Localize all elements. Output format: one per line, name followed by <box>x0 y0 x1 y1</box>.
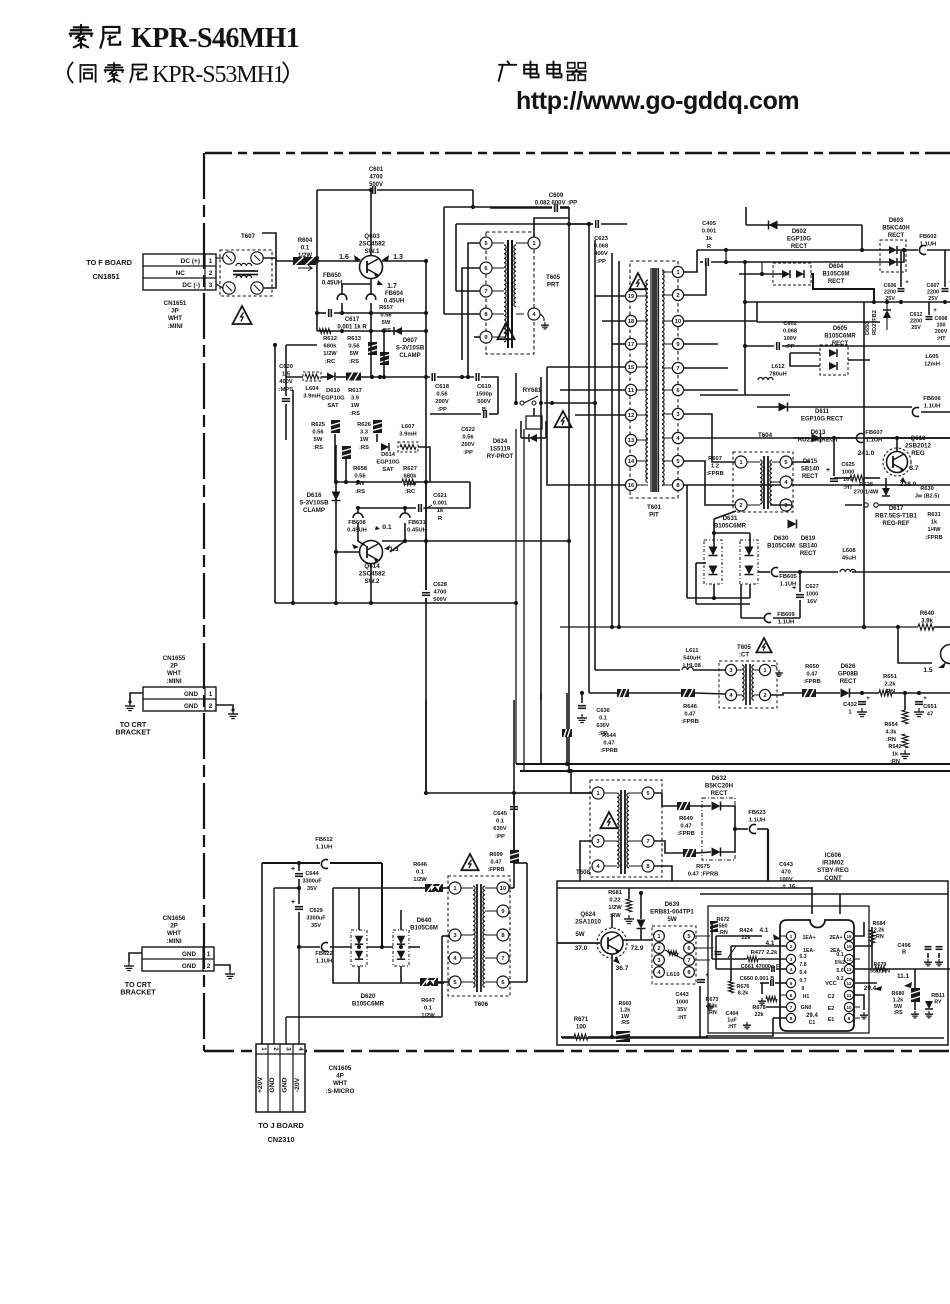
svg-text:C644: C644 <box>305 871 319 877</box>
svg-text::FPRB: :FPRB <box>925 535 942 541</box>
resistor R646a <box>413 862 443 892</box>
svg-text:1: 1 <box>848 710 852 716</box>
resistor R626 <box>357 420 382 451</box>
svg-text:35V: 35V <box>307 886 317 892</box>
svg-text:T605: T605 <box>546 274 561 281</box>
label D639 <box>650 901 694 923</box>
svg-text:B105C6MR: B105C6MR <box>824 334 856 340</box>
svg-text:SAT: SAT <box>382 467 394 473</box>
wire x426 down <box>425 482 427 590</box>
wire x864 vertical <box>861 225 863 250</box>
wire x426 right vertical <box>425 261 427 590</box>
capacitor C612 <box>910 307 938 331</box>
svg-text:16: 16 <box>846 934 852 939</box>
svg-text:R642: R642 <box>888 744 901 750</box>
wire row402 to T601 <box>539 401 543 405</box>
svg-text:19: 19 <box>628 294 635 300</box>
inductor L605 <box>924 354 940 368</box>
transformer T605 PRT <box>480 232 561 354</box>
resistor R672 <box>710 917 729 936</box>
transformer T606 <box>448 876 510 996</box>
wire y224 elbow <box>456 223 593 225</box>
inner box IC606 area <box>708 906 869 1033</box>
resistor R627 <box>402 466 417 495</box>
svg-text:3.3: 3.3 <box>360 430 369 436</box>
svg-text:R424: R424 <box>739 928 753 934</box>
capacitor C632 <box>843 695 870 717</box>
svg-text:8: 8 <box>790 1016 793 1021</box>
svg-text:C617: C617 <box>345 317 360 323</box>
wire Q614 vertical left <box>335 445 337 603</box>
svg-text:R630: R630 <box>920 486 933 492</box>
svg-text:R671: R671 <box>574 1017 589 1023</box>
subtitle (同索尼 KPR-S53MH1) <box>68 62 288 88</box>
resistor R650 <box>802 664 821 697</box>
svg-text:0.1: 0.1 <box>382 524 392 531</box>
ground CN1655 right <box>228 710 238 719</box>
wire 426 top segment2 <box>425 700 427 793</box>
resistor R607 <box>706 456 724 477</box>
resistor R647 <box>420 978 438 1019</box>
bottom bus of Q614 block <box>275 602 516 604</box>
svg-text:L611: L611 <box>686 648 700 654</box>
transistor Q613 <box>858 435 932 488</box>
resistor R613 <box>347 336 377 365</box>
svg-text:B105C6MR: B105C6MR <box>352 1001 385 1008</box>
svg-text:D604: D604 <box>829 264 844 270</box>
svg-text:Q624: Q624 <box>580 911 596 918</box>
svg-text:R660: R660 <box>619 1001 632 1007</box>
label 29.4 <box>864 985 882 992</box>
wire row377 <box>286 376 303 378</box>
svg-text:0.47 :FPRB: 0.47 :FPRB <box>688 872 719 878</box>
transformer T605 CT <box>719 645 783 708</box>
svg-text:1000: 1000 <box>806 592 818 598</box>
transistor Q603 <box>339 233 403 290</box>
connector CN1851 TO F BOARD <box>86 254 216 290</box>
svg-text:540uH: 540uH <box>683 656 700 662</box>
svg-text:0.7: 0.7 <box>799 978 806 984</box>
svg-text:D619: D619 <box>801 536 816 542</box>
svg-text::FPRB: :FPRB <box>681 719 699 725</box>
svg-text::RW: :RW <box>609 913 621 919</box>
svg-text:B105C6MR: B105C6MR <box>714 523 747 530</box>
warning triangle T601 <box>629 273 646 289</box>
svg-text:L612: L612 <box>771 364 784 370</box>
svg-text:47: 47 <box>927 712 933 718</box>
capacitor C625 <box>826 462 855 491</box>
svg-text:0.47: 0.47 <box>684 712 695 718</box>
svg-text:5W: 5W <box>314 437 323 443</box>
svg-text:R647: R647 <box>421 998 435 1004</box>
svg-text:C608: C608 <box>935 316 948 322</box>
diode bridge D630 <box>704 535 795 584</box>
svg-text:RB11: RB11 <box>931 993 944 999</box>
ground CN1656 left <box>124 962 134 971</box>
svg-text:4700: 4700 <box>369 175 383 181</box>
capacitor C663 <box>675 972 714 1021</box>
capacitor C601 <box>369 167 384 194</box>
svg-text:R613: R613 <box>347 336 362 342</box>
svg-text:B5KC40H: B5KC40H <box>882 226 909 232</box>
svg-text:http://www.go-gddq.com: http://www.go-gddq.com <box>516 87 799 115</box>
svg-text:T606: T606 <box>474 1001 489 1008</box>
label CN1651 <box>164 300 187 330</box>
svg-text:GND: GND <box>282 1077 289 1092</box>
ferrite bead FB650 <box>322 273 347 300</box>
svg-text:5.4: 5.4 <box>799 970 806 976</box>
svg-text::RN: :RN <box>874 934 884 940</box>
svg-text:100: 100 <box>576 1025 587 1031</box>
zener D650 <box>865 302 891 335</box>
label T606 <box>474 1001 489 1008</box>
capacitor C627 <box>792 584 819 605</box>
svg-text:C609: C609 <box>549 193 564 199</box>
svg-text:DC (-): DC (-) <box>182 282 200 289</box>
svg-text:C404: C404 <box>726 1011 739 1017</box>
capacitor C622 <box>461 410 486 456</box>
resistor R677 <box>747 950 778 962</box>
resistor R646b row691 <box>617 689 699 725</box>
svg-text:KPR-S53MH1: KPR-S53MH1 <box>152 62 284 88</box>
svg-text:CN1656: CN1656 <box>163 915 186 922</box>
zener D617 reg-ref <box>875 488 917 527</box>
wire top right loop 225 <box>746 224 862 226</box>
svg-text:4700: 4700 <box>434 590 447 596</box>
svg-text:1.6: 1.6 <box>339 254 349 261</box>
label D620 <box>352 993 385 1008</box>
svg-text:FB602: FB602 <box>919 234 936 240</box>
svg-text:C660 0.001 B: C660 0.001 B <box>740 976 775 982</box>
wires lower-left verticals <box>261 863 263 1044</box>
diode bridge D618 <box>351 930 367 966</box>
wires CN1655 grounds <box>130 693 143 702</box>
svg-text:0.082 600V :PP: 0.082 600V :PP <box>535 201 577 207</box>
svg-text::FPRB: :FPRB <box>706 471 724 477</box>
svg-text:1.2k: 1.2k <box>893 997 904 1003</box>
svg-text:2: 2 <box>207 963 211 970</box>
left verticals q614 block <box>274 345 276 603</box>
wire Q624 emitter-collector <box>611 954 613 1037</box>
svg-text:SB140: SB140 <box>799 544 818 550</box>
warning triangle T605CT <box>756 638 771 652</box>
svg-text:R651: R651 <box>883 674 898 680</box>
label TO CRT BRACKET 2 <box>120 980 156 997</box>
svg-text:L607: L607 <box>401 424 414 430</box>
svg-text:5: 5 <box>790 981 793 986</box>
svg-text:7: 7 <box>790 1005 793 1010</box>
resistor R673 <box>706 997 719 1016</box>
svg-text:VCC: VCC <box>825 981 836 987</box>
svg-text:FB623: FB623 <box>748 810 766 816</box>
svg-text:5W: 5W <box>350 351 359 357</box>
svg-text:RY681: RY681 <box>523 387 542 394</box>
svg-text:REG: REG <box>911 450 925 457</box>
svg-text:1.5: 1.5 <box>923 667 932 674</box>
svg-text::RS: :RS <box>313 445 323 451</box>
svg-text:ERB81-004TP1: ERB81-004TP1 <box>650 909 694 916</box>
svg-text:1: 1 <box>209 258 213 265</box>
warning triangle below T607 <box>233 306 252 324</box>
svg-text:10: 10 <box>675 319 681 325</box>
svg-text:1.1UH: 1.1UH <box>924 404 940 410</box>
svg-text:3.9mH: 3.9mH <box>303 394 320 400</box>
svg-text:+: + <box>291 899 295 906</box>
svg-text::RC: :RC <box>325 359 336 365</box>
svg-text:R640: R640 <box>920 611 935 617</box>
svg-text:L604: L604 <box>305 386 319 392</box>
svg-text:0.1: 0.1 <box>496 819 505 825</box>
svg-text:10: 10 <box>500 886 506 892</box>
resistor R630 <box>915 486 940 500</box>
resistor R660 <box>616 1001 631 1042</box>
svg-text:0.56: 0.56 <box>462 435 474 441</box>
svg-text:7.8: 7.8 <box>799 962 806 968</box>
svg-text:BRACKET: BRACKET <box>115 728 151 737</box>
op-amp IC606 chip <box>780 920 860 1031</box>
svg-text:14: 14 <box>846 957 852 962</box>
resistor R684 <box>869 921 885 943</box>
diode D631 label <box>714 515 747 530</box>
wires T601 right pins <box>684 250 697 272</box>
svg-text:9: 9 <box>802 986 805 992</box>
svg-text:0.001: 0.001 <box>702 229 717 235</box>
svg-text:+: + <box>905 279 909 286</box>
svg-text:3300uF: 3300uF <box>306 916 326 922</box>
wires T605 left pins <box>468 243 480 377</box>
svg-text:7: 7 <box>676 366 679 372</box>
svg-text:7: 7 <box>484 289 487 295</box>
svg-text:3300uF: 3300uF <box>302 879 322 885</box>
ferrite bead FB607 <box>856 430 882 444</box>
svg-text:11.1: 11.1 <box>897 973 910 980</box>
svg-text:2.2k: 2.2k <box>707 1004 718 1010</box>
wire row 508 <box>358 507 416 509</box>
svg-text:1/2W: 1/2W <box>413 877 427 883</box>
svg-text::HT: :HT <box>677 1015 687 1021</box>
svg-text:100V: 100V <box>783 336 796 342</box>
inductor L612 <box>758 364 787 380</box>
wire y207 top <box>444 206 552 208</box>
svg-text::CT: :CT <box>739 653 749 659</box>
ferrite bead FB608 <box>347 513 367 534</box>
svg-text:R625: R625 <box>311 422 326 428</box>
title 索尼 KPR-S46MH1 <box>70 23 299 54</box>
svg-text:5W: 5W <box>382 320 391 326</box>
svg-text:B5KC20H: B5KC20H <box>705 783 734 790</box>
diode D601 <box>769 221 778 230</box>
svg-text:72.9: 72.9 <box>631 945 644 952</box>
capacitor C644 <box>291 866 322 892</box>
svg-text:RECT: RECT <box>832 341 849 347</box>
ferrite bead FB605 <box>771 568 797 588</box>
svg-text:5W: 5W <box>667 916 676 923</box>
ground CN1655 left <box>125 702 135 711</box>
svg-text:D632: D632 <box>712 775 727 782</box>
diode D602 label <box>787 229 811 250</box>
svg-text:1k: 1k <box>706 236 713 242</box>
transformer T607 <box>216 233 272 296</box>
zener RB11 <box>925 993 945 1018</box>
svg-text:GND: GND <box>182 963 196 970</box>
svg-text:T608: T608 <box>576 869 591 876</box>
svg-text:C606: C606 <box>884 283 897 289</box>
resistor R628 <box>850 475 879 496</box>
wires T608 left <box>571 771 592 793</box>
svg-text:4P: 4P <box>336 1073 344 1080</box>
svg-text:NC: NC <box>176 270 186 277</box>
wires bottom of block <box>561 1036 574 1038</box>
svg-text:GND: GND <box>182 951 196 958</box>
diode D634 <box>487 434 537 460</box>
capacitor C405 <box>702 221 717 266</box>
svg-text:680k: 680k <box>324 344 338 350</box>
svg-text:C601: C601 <box>369 167 384 173</box>
svg-text:C607: C607 <box>927 283 940 289</box>
svg-text:2: 2 <box>209 703 213 710</box>
svg-text:RECT: RECT <box>888 233 905 239</box>
svg-text:3: 3 <box>285 1047 292 1051</box>
svg-text:2P: 2P <box>170 923 178 930</box>
resistor R699 <box>487 850 519 873</box>
svg-text:0.45UH: 0.45UH <box>322 281 342 287</box>
svg-text:R657: R657 <box>379 305 393 311</box>
diode D611 <box>779 403 844 423</box>
wire bus 302 <box>745 301 950 303</box>
wire bus 250 <box>697 249 889 251</box>
svg-text:100: 100 <box>937 323 946 329</box>
transistor right edge <box>923 645 950 675</box>
capacitor C621 <box>419 493 448 522</box>
site url <box>516 87 799 115</box>
svg-text:B: B <box>902 950 906 956</box>
svg-text:PIT: PIT <box>649 512 659 519</box>
svg-text:R617: R617 <box>348 388 362 394</box>
svg-text::PP: :PP <box>463 450 473 456</box>
svg-text:FB604: FB604 <box>385 291 404 297</box>
wire Q624 base <box>557 942 600 944</box>
svg-text:C623: C623 <box>594 236 609 242</box>
svg-text:15: 15 <box>628 365 635 371</box>
svg-text:C619: C619 <box>477 384 492 390</box>
svg-text:13: 13 <box>628 438 635 444</box>
ferrite bead FB604 <box>366 291 404 305</box>
svg-text:C432: C432 <box>843 702 857 708</box>
svg-text:200V: 200V <box>461 442 475 448</box>
wire q603 row 331 <box>317 330 426 332</box>
svg-text:1500p: 1500p <box>476 392 493 398</box>
svg-text:C496: C496 <box>897 943 910 949</box>
svg-text:CLAMP: CLAMP <box>303 507 325 514</box>
diode D619 <box>788 520 818 558</box>
svg-text:D639: D639 <box>665 901 680 908</box>
resistor R654 <box>884 710 908 743</box>
svg-text:C618: C618 <box>435 384 450 390</box>
svg-text:S-3V10SB: S-3V10SB <box>299 500 329 507</box>
svg-text::FPRB: :FPRB <box>600 748 618 754</box>
svg-text::PP: :PP <box>437 407 447 413</box>
svg-text:+: + <box>923 695 927 702</box>
svg-text:R654: R654 <box>884 722 898 728</box>
svg-text:17: 17 <box>628 342 634 348</box>
svg-text:1k: 1k <box>437 508 444 514</box>
svg-text::PP: :PP <box>495 834 505 840</box>
resistor R657 <box>379 305 393 334</box>
svg-text::HT: :HT <box>937 336 947 342</box>
svg-text:C625: C625 <box>841 462 854 468</box>
svg-text:C627: C627 <box>805 584 818 590</box>
svg-text:Q603: Q603 <box>364 233 380 240</box>
svg-text:+: + <box>291 866 295 873</box>
svg-text:T605: T605 <box>737 645 751 651</box>
svg-text:+: + <box>710 945 714 952</box>
svg-text:EGP10G: EGP10G <box>376 460 400 466</box>
svg-text:C651: C651 <box>923 704 938 710</box>
svg-text:45uH: 45uH <box>842 556 856 562</box>
svg-text:IR3M02: IR3M02 <box>822 860 844 867</box>
svg-text:1.3: 1.3 <box>393 254 403 261</box>
svg-text:H1: H1 <box>803 994 810 1000</box>
svg-text:4: 4 <box>297 1047 304 1051</box>
svg-text:14: 14 <box>628 459 635 465</box>
resistor R604 <box>293 238 316 271</box>
svg-text:RECT: RECT <box>840 678 857 685</box>
svg-text:EGP10G: EGP10G <box>321 396 345 402</box>
svg-text:FB609: FB609 <box>777 612 795 618</box>
svg-text:5%2: 5%2 <box>835 960 845 966</box>
resistor R651 <box>879 674 898 696</box>
svg-text:R678: R678 <box>752 1005 765 1011</box>
capacitor C618 <box>432 373 450 413</box>
wires to Q614 <box>357 508 359 513</box>
svg-text:2.2k: 2.2k <box>884 682 896 688</box>
svg-text:L605: L605 <box>925 354 939 360</box>
svg-text:3: 3 <box>209 282 213 289</box>
svg-text:TO J BOARD: TO J BOARD <box>258 1121 304 1130</box>
wire x768 down thick <box>767 829 769 881</box>
svg-text:B105C6M: B105C6M <box>767 543 795 550</box>
capacitor C696 <box>897 943 942 956</box>
svg-text:C645: C645 <box>493 811 508 817</box>
svg-text:RY-PROT: RY-PROT <box>487 454 514 460</box>
svg-text:R477 2.2k: R477 2.2k <box>751 950 779 956</box>
label IC606 <box>817 852 849 882</box>
wire row541 <box>382 540 569 542</box>
svg-text:D602: D602 <box>792 229 807 235</box>
diode D615 <box>801 434 821 481</box>
wire bus 627 <box>560 626 918 628</box>
svg-text:6: 6 <box>790 993 793 998</box>
svg-text:Jw (B2.5): Jw (B2.5) <box>915 494 940 500</box>
svg-text:R644: R644 <box>602 733 617 739</box>
wires inside box top <box>557 887 812 889</box>
svg-text:CLAMP: CLAMP <box>399 353 420 359</box>
svg-text:C621: C621 <box>433 493 448 499</box>
capacitor C643 <box>779 862 796 890</box>
svg-text:CN1655: CN1655 <box>163 655 186 662</box>
label TO J BOARD CN2310 <box>258 1121 304 1144</box>
svg-text:D631: D631 <box>723 515 738 522</box>
svg-text:0.2: 0.2 <box>836 976 843 982</box>
wire C601 top <box>317 189 371 191</box>
svg-text:DC (+): DC (+) <box>181 258 200 265</box>
diode D614 <box>376 443 400 473</box>
ferrite bead FB602 <box>919 234 936 254</box>
wire q603 row 313 <box>317 312 326 314</box>
svg-text:+20V: +20V <box>257 1077 264 1094</box>
svg-text:E1: E1 <box>828 1017 835 1023</box>
svg-text::MINI: :MINI <box>167 323 182 330</box>
